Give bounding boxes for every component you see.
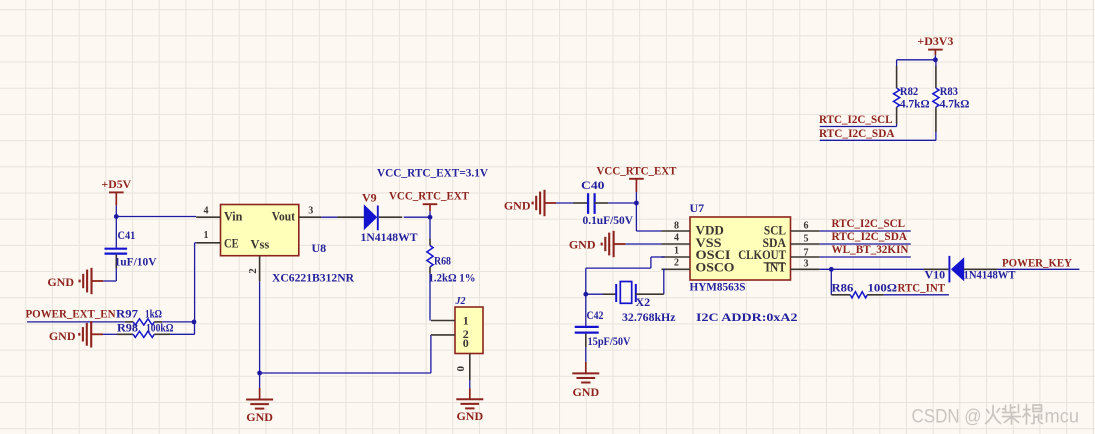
diode V10 1N4148WT bbox=[925, 256, 1016, 283]
capacitor C40 bbox=[556, 178, 636, 227]
U7 pin 1 (OSCI) bbox=[662, 245, 691, 257]
ground GND (C40) bbox=[504, 190, 556, 216]
wire VDD net bbox=[636, 203, 661, 231]
svg-text:INT: INT bbox=[765, 260, 786, 275]
connector J2 bbox=[455, 296, 484, 354]
IC U8 XC6221B312NR bbox=[221, 205, 355, 285]
J2 pin 2 bbox=[431, 334, 455, 336]
node junction D5V/C41 bbox=[114, 214, 119, 219]
svg-text:Vout: Vout bbox=[272, 209, 296, 224]
U8 pin 4 (Vin) bbox=[196, 206, 220, 218]
capacitor C41 bbox=[103, 217, 157, 282]
power +D3V3 bbox=[917, 34, 953, 60]
svg-text:OSCO: OSCO bbox=[696, 260, 735, 275]
net label WL_BT_32KIN bbox=[832, 242, 909, 256]
svg-text:32.768kHz: 32.768kHz bbox=[622, 310, 676, 324]
svg-text:R68: R68 bbox=[434, 253, 451, 267]
U7 pin 5 (SDA) bbox=[791, 233, 820, 244]
U7 pin 7 (CLKOUT) bbox=[791, 248, 820, 259]
svg-text:WL_BT_32KIN: WL_BT_32KIN bbox=[832, 242, 909, 256]
power VCC_RTC_EXT (V9 node) bbox=[389, 189, 469, 218]
svg-text:+D5V: +D5V bbox=[102, 177, 132, 191]
svg-text:Vss: Vss bbox=[251, 236, 270, 251]
svg-text:GND: GND bbox=[456, 409, 483, 423]
svg-text:J2: J2 bbox=[455, 296, 466, 307]
node junction C40/VDD bbox=[634, 201, 639, 206]
svg-text:1: 1 bbox=[463, 314, 469, 328]
svg-text:100kΩ: 100kΩ bbox=[146, 320, 174, 334]
net label RTC_I2C_SDA (pullup) bbox=[819, 126, 895, 140]
svg-text:I2C ADDR:0xA2: I2C ADDR:0xA2 bbox=[696, 310, 798, 324]
U7 pin 2 (OSCO) bbox=[662, 258, 691, 270]
svg-text:U8: U8 bbox=[312, 241, 327, 255]
svg-text:RTC_I2C_SCL: RTC_I2C_SCL bbox=[832, 216, 906, 230]
svg-text:CE: CE bbox=[224, 235, 239, 250]
wire +D5V to U8 Vin bbox=[116, 216, 196, 218]
wire RTC_INT bbox=[884, 294, 949, 296]
svg-text:VCC_RTC_EXT: VCC_RTC_EXT bbox=[597, 163, 677, 177]
svg-text:15pF/50V: 15pF/50V bbox=[588, 334, 631, 348]
svg-text:7: 7 bbox=[804, 248, 809, 259]
wire RTC_I2C_SCL (pullup) bbox=[820, 126, 897, 128]
wire CE net vertical bbox=[195, 243, 197, 322]
ground GND (C41) bbox=[47, 268, 103, 294]
svg-text:4.7kΩ: 4.7kΩ bbox=[900, 96, 930, 110]
node junction INT/R86 bbox=[829, 267, 834, 272]
svg-text:4: 4 bbox=[204, 206, 209, 217]
J2 pin 0 bbox=[455, 354, 470, 381]
net label POWER_KEY bbox=[1002, 256, 1072, 270]
node junction Vss/GND bbox=[257, 371, 262, 376]
svg-text:CSDN @: CSDN @ bbox=[912, 407, 982, 428]
svg-text:POWER_EXT_EN: POWER_EXT_EN bbox=[26, 306, 116, 320]
node junction D3V3 bbox=[933, 57, 938, 62]
crystal X2 32.768kHz bbox=[603, 282, 676, 324]
svg-text:GND: GND bbox=[572, 385, 599, 399]
net label RTC_I2C_SCL (pullup) bbox=[819, 112, 893, 126]
svg-text:X2: X2 bbox=[636, 295, 651, 309]
svg-text:VCC_RTC_EXT=3.1V: VCC_RTC_EXT=3.1V bbox=[377, 166, 488, 180]
svg-text:1N4148WT: 1N4148WT bbox=[361, 230, 418, 244]
svg-text:POWER_KEY: POWER_KEY bbox=[1002, 256, 1072, 270]
net label POWER_EXT_EN bbox=[26, 306, 116, 320]
IC U7 HYM8563S bbox=[690, 201, 791, 293]
svg-text:HYM8563S: HYM8563S bbox=[690, 279, 746, 293]
wire RTC_I2C_SDA (pullup) bbox=[820, 139, 936, 141]
svg-text:2: 2 bbox=[674, 258, 679, 269]
wire VSS net bbox=[625, 243, 661, 245]
svg-text:2: 2 bbox=[247, 268, 259, 274]
svg-text:VCC_RTC_EXT: VCC_RTC_EXT bbox=[389, 189, 469, 203]
resistor R82 4.7k bbox=[894, 66, 930, 127]
svg-text:Vin: Vin bbox=[224, 208, 243, 223]
ground GND (R98) bbox=[49, 321, 103, 347]
ground GND (VSS) bbox=[569, 231, 626, 257]
text I2C ADDR:0xA2 bbox=[696, 310, 798, 324]
svg-text:RTC_INT: RTC_INT bbox=[898, 281, 946, 295]
svg-text:mcu: mcu bbox=[1045, 407, 1080, 428]
net label RTC_INT bbox=[898, 281, 946, 295]
svg-text:8: 8 bbox=[674, 220, 679, 231]
svg-text:1: 1 bbox=[204, 230, 209, 241]
node junction VCC_RTC_EXT bbox=[428, 215, 433, 220]
svg-text:+D3V3: +D3V3 bbox=[917, 34, 953, 48]
power +D5V bbox=[102, 177, 132, 217]
ground GND (J2) bbox=[456, 380, 483, 423]
svg-text:R86: R86 bbox=[832, 281, 854, 295]
diode V9 1N4148WT bbox=[321, 190, 430, 243]
resistor R83 4.7k bbox=[933, 60, 970, 141]
U8 pin 1 (CE) bbox=[196, 230, 220, 243]
wire INT net bbox=[820, 268, 949, 270]
svg-text:C41: C41 bbox=[118, 228, 136, 242]
J2 pin 1 bbox=[431, 320, 455, 322]
svg-text:GND: GND bbox=[47, 275, 74, 289]
power VCC_RTC_EXT (C40 node) bbox=[597, 163, 677, 203]
svg-text:100Ω: 100Ω bbox=[868, 281, 898, 295]
wire POWER_EXT_EN bbox=[27, 321, 125, 323]
svg-text:R98: R98 bbox=[117, 320, 138, 334]
node junction EN net bbox=[192, 320, 197, 325]
svg-text:GND: GND bbox=[504, 199, 531, 213]
net label RTC_I2C_SDA bbox=[832, 229, 908, 243]
resistor R68 1.2k bbox=[427, 217, 476, 320]
svg-text:R97: R97 bbox=[116, 306, 138, 320]
watermark CSDN bbox=[912, 405, 1080, 428]
wire D3V3 rail bbox=[897, 60, 936, 66]
svg-text:GND: GND bbox=[49, 329, 76, 343]
svg-text:RTC_I2C_SDA: RTC_I2C_SDA bbox=[832, 229, 908, 243]
svg-text:3: 3 bbox=[308, 206, 313, 217]
svg-text:5: 5 bbox=[804, 233, 809, 244]
text VCC_RTC_EXT=3.1V bbox=[377, 166, 488, 180]
wire RTC_I2C_SDA bbox=[820, 243, 911, 245]
capacitor C42 bbox=[575, 294, 631, 362]
svg-text:1.2kΩ 1%: 1.2kΩ 1% bbox=[429, 270, 476, 284]
svg-text:1: 1 bbox=[674, 245, 679, 256]
wire POWER_KEY bbox=[997, 268, 1079, 270]
svg-text:RTC_I2C_SCL: RTC_I2C_SCL bbox=[819, 112, 893, 126]
svg-text:1uF/10V: 1uF/10V bbox=[115, 254, 157, 268]
U8 pin 3 (Vout) bbox=[299, 206, 321, 218]
svg-text:GND: GND bbox=[569, 237, 596, 251]
svg-text:0: 0 bbox=[455, 366, 467, 372]
svg-text:RTC_I2C_SDA: RTC_I2C_SDA bbox=[819, 126, 895, 140]
svg-text:V9: V9 bbox=[362, 190, 377, 204]
svg-text:C40: C40 bbox=[581, 178, 605, 192]
ground GND (U8) bbox=[246, 373, 273, 424]
svg-text:0.1uF/50V: 0.1uF/50V bbox=[583, 213, 634, 227]
resistor R97 1k bbox=[116, 306, 194, 325]
node junction OSCO/C42 bbox=[583, 292, 588, 297]
net label RTC_I2C_SCL bbox=[832, 216, 906, 230]
U8 pin 2 (Vss) bbox=[247, 256, 260, 282]
svg-text:4: 4 bbox=[674, 232, 679, 243]
U7 pin 8 (VDD) bbox=[662, 220, 691, 231]
resistor R98 100k bbox=[103, 320, 195, 337]
svg-text:U7: U7 bbox=[690, 201, 705, 215]
wire WL_BT_32KIN bbox=[820, 256, 911, 258]
wire OSCI net bbox=[586, 257, 665, 294]
svg-text:4.7kΩ: 4.7kΩ bbox=[940, 96, 970, 110]
U7 pin 6 (SCL) bbox=[791, 220, 820, 231]
svg-text:0: 0 bbox=[463, 336, 469, 350]
svg-text:XC6221B312NR: XC6221B312NR bbox=[272, 270, 354, 284]
svg-text:GND: GND bbox=[246, 410, 273, 424]
wire RTC_I2C_SCL bbox=[820, 230, 911, 232]
U7 pin 3 (INT) bbox=[791, 259, 820, 270]
svg-text:V10: V10 bbox=[925, 268, 946, 282]
svg-text:6: 6 bbox=[804, 220, 809, 231]
U7 pin 4 (VSS) bbox=[662, 232, 691, 244]
svg-text:3: 3 bbox=[804, 259, 809, 270]
ground GND (C42) bbox=[572, 362, 599, 399]
svg-text:C42: C42 bbox=[587, 308, 604, 322]
svg-text:1kΩ: 1kΩ bbox=[145, 306, 162, 320]
resistor R86 100ohm bbox=[831, 269, 897, 298]
wire OSCO net bbox=[664, 269, 665, 294]
wire Vss to GND rail bbox=[260, 281, 431, 373]
